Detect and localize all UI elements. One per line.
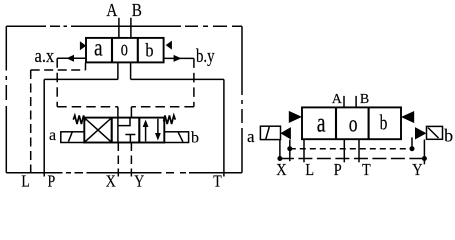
wire X drop [279,140,281,159]
pilot valve U2 body [84,118,164,143]
a.x dashed run to pilot A [57,106,118,108]
a.x pilot line [57,57,86,59]
b.y pilot line [164,57,194,59]
svg-text:a.x: a.x [35,45,55,66]
pilot box center: B elbow [118,118,130,126]
junction dot Y [422,156,427,161]
main valve divider o|b [137,38,139,63]
junction dot drain right [410,146,415,151]
junction dot X [277,156,282,161]
wire port B down to valve [130,18,132,38]
left solenoid pilot triangle [280,127,291,139]
right main pilot triangle [401,111,414,123]
left main pilot triangle [289,111,302,123]
svg-text:a: a [247,127,255,146]
drain L dashed vertical [30,70,32,177]
solenoid a box (right symbol) [260,126,280,139]
svg-text:b.y: b.y [196,45,215,66]
svg-text:T: T [213,172,222,190]
pilot box center: T blocked bar [125,135,135,143]
wire drain left vertical [289,140,291,162]
svg-text:X: X [276,161,287,179]
tick port A [343,96,345,108]
svg-text:B: B [360,92,369,107]
divider o|b [368,107,370,139]
svg-text:Y: Y [412,161,422,179]
pilot box a crossed arrows [85,119,111,142]
drain L elbow to valve corner [85,63,87,70]
wire T drop [358,139,360,162]
svg-text:o: o [349,110,358,138]
a.x dashed drop [56,58,58,107]
pilot box b down arrow [157,119,159,136]
tick port B [355,96,357,108]
pilot valve divider 1 [111,118,113,143]
valve body (simplified) [302,107,401,139]
svg-text:a: a [49,127,56,144]
dashed pilot rail X-Y [280,158,425,160]
drain L dashed horizontal [31,69,86,71]
wire P drop [343,139,345,162]
solenoid b diagonal [178,132,183,142]
svg-text:o: o [121,36,128,61]
dashed drain rail [290,148,412,150]
svg-text:b: b [380,111,388,134]
main valve divider a|o [111,38,113,63]
pilot Y dashed drop [130,143,132,177]
svg-text:b: b [444,126,453,146]
main valve left pilot triangle [80,41,86,50]
svg-text:A: A [332,92,343,107]
svg-text:X: X [106,172,116,190]
wire P down to port [43,79,45,176]
svg-text:L: L [21,172,29,190]
wire T horizontal [131,78,224,80]
spring left [73,115,85,124]
wire Y drop [423,140,425,165]
b.y dashed drop [193,58,195,106]
b.y arrowhead [174,55,182,62]
wire L drop [303,139,305,162]
wire T down to port [223,79,225,176]
solenoid a diagonal [68,132,72,142]
solenoid b diagonal [428,128,439,138]
right solenoid pilot triangle [415,127,426,139]
wire P horizontal [44,78,118,80]
solenoid b box [164,132,188,143]
a.x arrowhead [66,55,74,62]
svg-text:L: L [305,161,314,179]
svg-text:B: B [132,0,142,20]
wire pilot B up [130,107,132,118]
wire main T stub [130,62,132,79]
wire main P stub [117,62,119,79]
spring right [164,115,176,124]
main valve right pilot triangle [166,41,172,50]
solenoid b box (right symbol) [427,126,443,139]
pilot box b up arrow [145,124,147,141]
wire port A down to valve [118,18,120,38]
pilot box center: P-A through line [117,118,119,143]
wire pilot A up [117,107,119,118]
svg-text:P: P [334,161,342,179]
svg-text:P: P [48,172,56,190]
pilot valve divider 2 [138,118,140,143]
svg-text:T: T [362,161,371,179]
pilot X dashed drop [117,143,119,177]
divider a|o [335,107,337,139]
b.y dashed run to pilot B [131,106,194,108]
svg-text:a: a [94,33,103,61]
wire drain right vertical [411,137,413,148]
solenoid a diagonal [266,127,270,140]
svg-text:a: a [317,107,326,138]
enclosure frame (dash-dot, left detailed symbol) [6,26,242,173]
junction dot drain left [287,146,292,151]
svg-text:A: A [106,0,117,20]
svg-text:b: b [145,39,153,60]
main valve U1 body [86,38,164,63]
svg-text:Y: Y [134,172,144,190]
svg-text:b: b [191,129,199,146]
solenoid a box [61,132,85,143]
